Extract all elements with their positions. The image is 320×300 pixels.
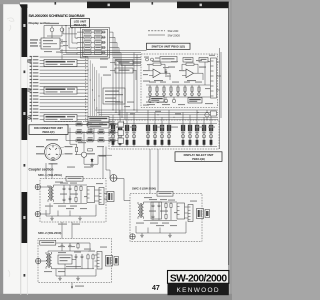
IC U4 bbox=[160, 57, 177, 63]
inner module box SWC-2 bbox=[151, 202, 162, 219]
connector pin 1 net label bbox=[30, 56, 32, 57]
resistor array box RA1 bbox=[44, 60, 77, 67]
connector pin 6 net label bbox=[30, 72, 32, 73]
wire: right edge bus bbox=[217, 48, 222, 118]
LED unit label box PB03-1(D) bbox=[71, 19, 90, 28]
connector CN7 strip bbox=[188, 205, 193, 222]
wire: J4 to SWC-2 and display select drops bbox=[116, 149, 158, 201]
model label box SW-200/2000 bbox=[168, 271, 229, 285]
transistor Q1 bbox=[50, 28, 54, 32]
connector J4 sub input pin jack bbox=[110, 175, 117, 182]
resistor row group RG1 bbox=[66, 121, 124, 127]
connector pin 14 net label bbox=[30, 99, 32, 100]
transistor Q15 driver cell bbox=[153, 124, 157, 147]
wire: op-amp feedback loops bbox=[149, 64, 203, 80]
connector pin 17 net label bbox=[30, 108, 32, 109]
scanned page background bbox=[0, 0, 232, 300]
resistor R20 feedback bbox=[153, 63, 161, 65]
wire: IC to RA1 bbox=[61, 49, 63, 60]
wire bundle: matrix bus bbox=[95, 110, 218, 124]
diode D9 bbox=[91, 158, 93, 163]
capacitor C23 bbox=[81, 254, 84, 259]
connector ring A bbox=[27, 59, 31, 63]
connector ring B bbox=[27, 88, 31, 92]
switch unit top components bbox=[146, 58, 209, 63]
transistor Q17 driver cell bbox=[167, 124, 171, 147]
junction dots bus bbox=[88, 70, 100, 109]
ref label box PB03-1(G) bbox=[157, 191, 173, 196]
connector J6 input pin jack bbox=[36, 258, 41, 263]
connector P3 plug bbox=[106, 256, 119, 267]
capacitor C22 bbox=[75, 254, 78, 259]
capacitor C3 bbox=[63, 197, 66, 202]
wire bundle: bus to switch unit upper bbox=[60, 51, 147, 55]
resistor array box RA3 bbox=[44, 115, 77, 122]
svg-text:SRC-1 (SW-200A): SRC-1 (SW-200A) bbox=[38, 173, 62, 177]
transformer T2 bbox=[138, 202, 144, 219]
value label 2SD400 bbox=[46, 23, 59, 24]
connector pin 9 net label bbox=[30, 82, 32, 83]
svg-text:SWITCH UNIT PB03-1(S): SWITCH UNIT PB03-1(S) bbox=[151, 45, 184, 49]
display select unit label box PB03-1(B) bbox=[175, 152, 222, 162]
wire: U2 U3 links bbox=[110, 63, 141, 81]
LED D5 row bbox=[77, 51, 106, 55]
resistor R11 bbox=[170, 202, 172, 209]
transistor row Q24-Q27 bbox=[148, 97, 176, 103]
resistor row dark marks bbox=[77, 124, 114, 141]
transistor Q19 driver cell bbox=[188, 124, 192, 147]
svg-text:SW-200/2000: SW-200/2000 bbox=[170, 273, 228, 284]
switch unit board outline (dashed) bbox=[141, 54, 218, 108]
resistor R2 bbox=[80, 185, 82, 192]
LED D2 row bbox=[77, 36, 106, 40]
connector CN8 strip bbox=[97, 252, 102, 270]
svg-text:LED UNIT: LED UNIT bbox=[74, 19, 87, 23]
connector pin 19 net label bbox=[30, 115, 32, 116]
wire: right bus extension bbox=[219, 118, 221, 149]
connector pin 16 net label bbox=[30, 105, 32, 106]
pin labels around J1 bbox=[36, 146, 73, 164]
legend: SW-200 dashed bbox=[148, 29, 180, 37]
capacitor C21 bbox=[69, 243, 72, 248]
resistor R1 bbox=[75, 185, 77, 192]
transistor Q30 bbox=[205, 110, 217, 120]
svg-text:SRC-2 (SW-2000): SRC-2 (SW-2000) bbox=[38, 231, 61, 235]
connector J5 output pin jack bbox=[130, 234, 135, 239]
svg-text:KENWOOD: KENWOOD bbox=[176, 287, 219, 294]
connector pin 15 net label bbox=[30, 102, 32, 103]
ground: SRC-2 shield bbox=[76, 276, 80, 280]
connector pin 20 net label bbox=[30, 118, 32, 119]
connector CN5 strip bbox=[211, 58, 217, 98]
wire: jack leads bbox=[41, 185, 51, 214]
net label box N1 bbox=[88, 116, 109, 122]
connector ring C bbox=[27, 116, 31, 120]
value labels under SRC-1 box bbox=[58, 224, 80, 225]
wire bundle: display bus vertical bbox=[88, 57, 101, 121]
resistor array box RA2 bbox=[44, 87, 77, 94]
top index tabs bbox=[19, 2, 229, 9]
wire: pin 14 run bbox=[40, 99, 88, 101]
resistor row group RG3 bbox=[66, 137, 124, 143]
transistor Q12 driver cell bbox=[125, 124, 129, 147]
resistor row lower switch unit bbox=[146, 85, 210, 97]
junction dots LED feed bbox=[65, 25, 72, 29]
wire: DIN to coupler links bbox=[46, 163, 72, 239]
IC ref box dark bbox=[188, 98, 202, 104]
wire: variant dashed run bbox=[85, 56, 87, 123]
wire: pin 5 run bbox=[40, 69, 88, 71]
LED D4 row bbox=[77, 46, 106, 50]
capacitor C20 bbox=[61, 243, 64, 248]
transformer T3 bbox=[46, 252, 52, 269]
resistor R21 feedback bbox=[186, 63, 194, 65]
wire: bundle to rows bbox=[66, 118, 124, 141]
connector P2 plug bbox=[197, 209, 210, 219]
connector pin 10 net label bbox=[30, 85, 32, 86]
capacitor C12 bbox=[152, 214, 155, 219]
transistor Q13 driver cell bbox=[132, 124, 136, 147]
svg-text:DIN CONNECTOR UNIT: DIN CONNECTOR UNIT bbox=[34, 126, 63, 130]
ground: SRC-1 shield bbox=[78, 216, 82, 220]
connector pin 4 net label bbox=[30, 66, 32, 67]
wire: pin 18 run bbox=[40, 112, 88, 114]
wire: SRC-1 internal runs bbox=[46, 185, 99, 216]
connector pin 11 net label bbox=[30, 89, 32, 90]
svg-text:SW-200/2000 SCHEMATIC DIAGRAM: SW-200/2000 SCHEMATIC DIAGRAM bbox=[29, 14, 85, 18]
wire: SRC-2 internal runs bbox=[52, 255, 98, 276]
value labels SWC-2 bbox=[136, 199, 181, 224]
svg-text:47: 47 bbox=[152, 285, 160, 292]
value labels under Q row bbox=[147, 104, 185, 105]
IC U7 bbox=[177, 203, 185, 219]
LED D3 row bbox=[77, 41, 106, 45]
capacitor C2 bbox=[69, 186, 72, 191]
connector pin 18 net label bbox=[30, 112, 32, 113]
ground: SRC-1 bbox=[50, 216, 54, 220]
svg-text:SWC-2 (SW-2000): SWC-2 (SW-2000) bbox=[132, 187, 156, 191]
wire: pin 1 run bbox=[40, 56, 88, 58]
resistor row group RG2 bbox=[66, 129, 124, 135]
page edge shadow right bbox=[228, 8, 230, 265]
value labels SRC-2 bbox=[44, 246, 91, 272]
value labels near IC bbox=[44, 41, 68, 53]
resistor R12 bbox=[165, 213, 167, 220]
ground: SRC-2 bbox=[58, 276, 62, 280]
transistor Q8 driver bbox=[70, 128, 112, 165]
wire: pin 20 run bbox=[40, 118, 88, 120]
ref label box PB03-1(C) bbox=[66, 176, 83, 181]
extra components SRC-1 bbox=[69, 196, 72, 201]
switch unit value labels scatter bbox=[124, 55, 215, 114]
wire: pin 4 run bbox=[40, 66, 88, 68]
resistor R21 bbox=[87, 254, 89, 261]
wire: pin 7 run bbox=[40, 76, 88, 78]
wire: pin 3 run bbox=[40, 63, 88, 65]
wire: switch unit left ladder bbox=[113, 53, 205, 120]
svg-text:SW-2000: SW-2000 bbox=[168, 33, 181, 37]
left index tabs bbox=[22, 4, 28, 276]
capacitor C11 bbox=[158, 203, 161, 208]
wire: DIN to coupler right links bbox=[103, 147, 110, 179]
resistor R20 bbox=[77, 243, 79, 250]
svg-text:PB03-1(D): PB03-1(D) bbox=[74, 23, 87, 27]
resistor R22 bbox=[92, 254, 94, 261]
connector pin 8 net label bbox=[30, 79, 32, 80]
transistor Q18 driver cell bbox=[181, 124, 185, 147]
LED D1 row bbox=[77, 30, 106, 34]
wire bundle: LED unit outputs to switch unit bbox=[110, 32, 142, 65]
wire: pin 16 run bbox=[40, 105, 88, 107]
connector pin 12 net label bbox=[30, 92, 32, 93]
connector pin 13 net label bbox=[30, 95, 32, 96]
transistor Q22 driver cell bbox=[209, 124, 213, 147]
wire: pin 12 run bbox=[40, 92, 88, 94]
svg-text:Coupler section: Coupler section bbox=[29, 168, 54, 172]
svg-text:PB03-1(B): PB03-1(B) bbox=[192, 157, 205, 161]
coupler board SWC-2 outline (dashed) bbox=[130, 194, 202, 242]
transistor Q16 driver cell bbox=[160, 124, 164, 147]
connector J1 DIN socket bbox=[45, 144, 62, 161]
wire: pin 19 run bbox=[40, 115, 88, 117]
wire: pin 11 run bbox=[40, 89, 88, 91]
wire: pin 2 run bbox=[40, 59, 88, 61]
connector pin 3 net label bbox=[30, 63, 32, 64]
coupler board SRC-1 outline (dashed) bbox=[40, 179, 106, 223]
wire: pin 15 run bbox=[40, 102, 88, 104]
transistor Q10 driver cell bbox=[111, 124, 115, 147]
ground: SWC-2 shield bbox=[168, 233, 172, 237]
connector J3 input R pin jack bbox=[35, 211, 40, 216]
transformer T1 bbox=[48, 185, 54, 202]
KENWOOD logo box bbox=[168, 283, 229, 295]
ref label box PB03-1(H) bbox=[40, 240, 56, 245]
svg-text:PB03-1(F): PB03-1(F) bbox=[42, 130, 54, 134]
value labels SRC-1 bbox=[45, 183, 91, 207]
ground: Q8 emitter bbox=[90, 163, 94, 167]
wire: cell rails bbox=[111, 124, 217, 147]
transistor Q14 driver cell bbox=[146, 124, 150, 147]
resistor R10 bbox=[165, 202, 167, 209]
connector bracket CN2 bbox=[31, 56, 33, 122]
transistor Q2 bbox=[60, 28, 64, 32]
wire: pin 10 run bbox=[40, 86, 88, 88]
transistor Q20 driver cell bbox=[195, 124, 199, 147]
connector CN1 pin labels bbox=[30, 39, 38, 46]
wire: pin 13 run bbox=[40, 95, 88, 97]
connector pin 2 net label bbox=[30, 59, 32, 60]
IC U6 bbox=[87, 187, 95, 203]
DIN connector unit label box PB03-1(F) bbox=[29, 125, 68, 135]
junction dots matrix bus bbox=[113, 110, 199, 118]
svg-text:DISPLAY SELECT UNIT: DISPLAY SELECT UNIT bbox=[184, 153, 214, 157]
LED unit board outline bbox=[81, 28, 110, 59]
IC U3 pin box bbox=[115, 68, 133, 73]
wire: pin 6 run bbox=[40, 72, 88, 74]
wire bundle: LED feed verticals bbox=[63, 26, 77, 55]
connector J2 input L pin jack bbox=[35, 184, 40, 189]
connector P1 plug bbox=[104, 192, 114, 202]
value labels op-amp stage bbox=[152, 61, 206, 81]
IC U1 TC4011 bbox=[39, 38, 63, 49]
wire: SRC-2 top rail bbox=[41, 243, 90, 261]
ground: SWC-2 bbox=[140, 233, 144, 237]
coupler board SRC-2 outline (dashed) bbox=[38, 239, 112, 283]
capacitor C1 bbox=[63, 186, 66, 191]
faint scan marks facing page bbox=[7, 18, 14, 277]
wire: SWC-2 internal runs bbox=[136, 202, 188, 233]
op-amp U5a bbox=[153, 69, 161, 78]
IC U2 pin box bbox=[115, 60, 133, 65]
capacitor C10 bbox=[152, 203, 155, 208]
connector pin 7 net label bbox=[30, 76, 32, 77]
wire: pin 17 run bbox=[40, 109, 88, 111]
connector pin 5 net label bbox=[30, 69, 32, 70]
transistor Q11 driver cell bbox=[118, 124, 122, 147]
op-amp U5b bbox=[186, 69, 194, 78]
transistor Q21 driver cell bbox=[202, 124, 206, 147]
resistor network RM1 bbox=[103, 88, 125, 104]
resistor R3 bbox=[75, 196, 77, 203]
wire: pin 8 run bbox=[40, 79, 88, 81]
misc value labels scatter bbox=[55, 57, 215, 267]
output arrow below SRC-2 bbox=[71, 283, 84, 289]
connector CN6 strip bbox=[99, 188, 104, 205]
wire: top rail display section bbox=[44, 26, 87, 39]
net label box N2 bbox=[88, 122, 109, 128]
display select unit board outline (dashed) bbox=[109, 120, 219, 149]
SWITCH UNIT label box bbox=[147, 43, 191, 49]
capacitor C20 bbox=[165, 69, 167, 75]
wire: pin 9 run bbox=[40, 82, 88, 84]
IC ref box left bbox=[150, 97, 164, 103]
label FRONT VIEW bbox=[46, 139, 58, 140]
IC U8 bbox=[58, 255, 72, 264]
